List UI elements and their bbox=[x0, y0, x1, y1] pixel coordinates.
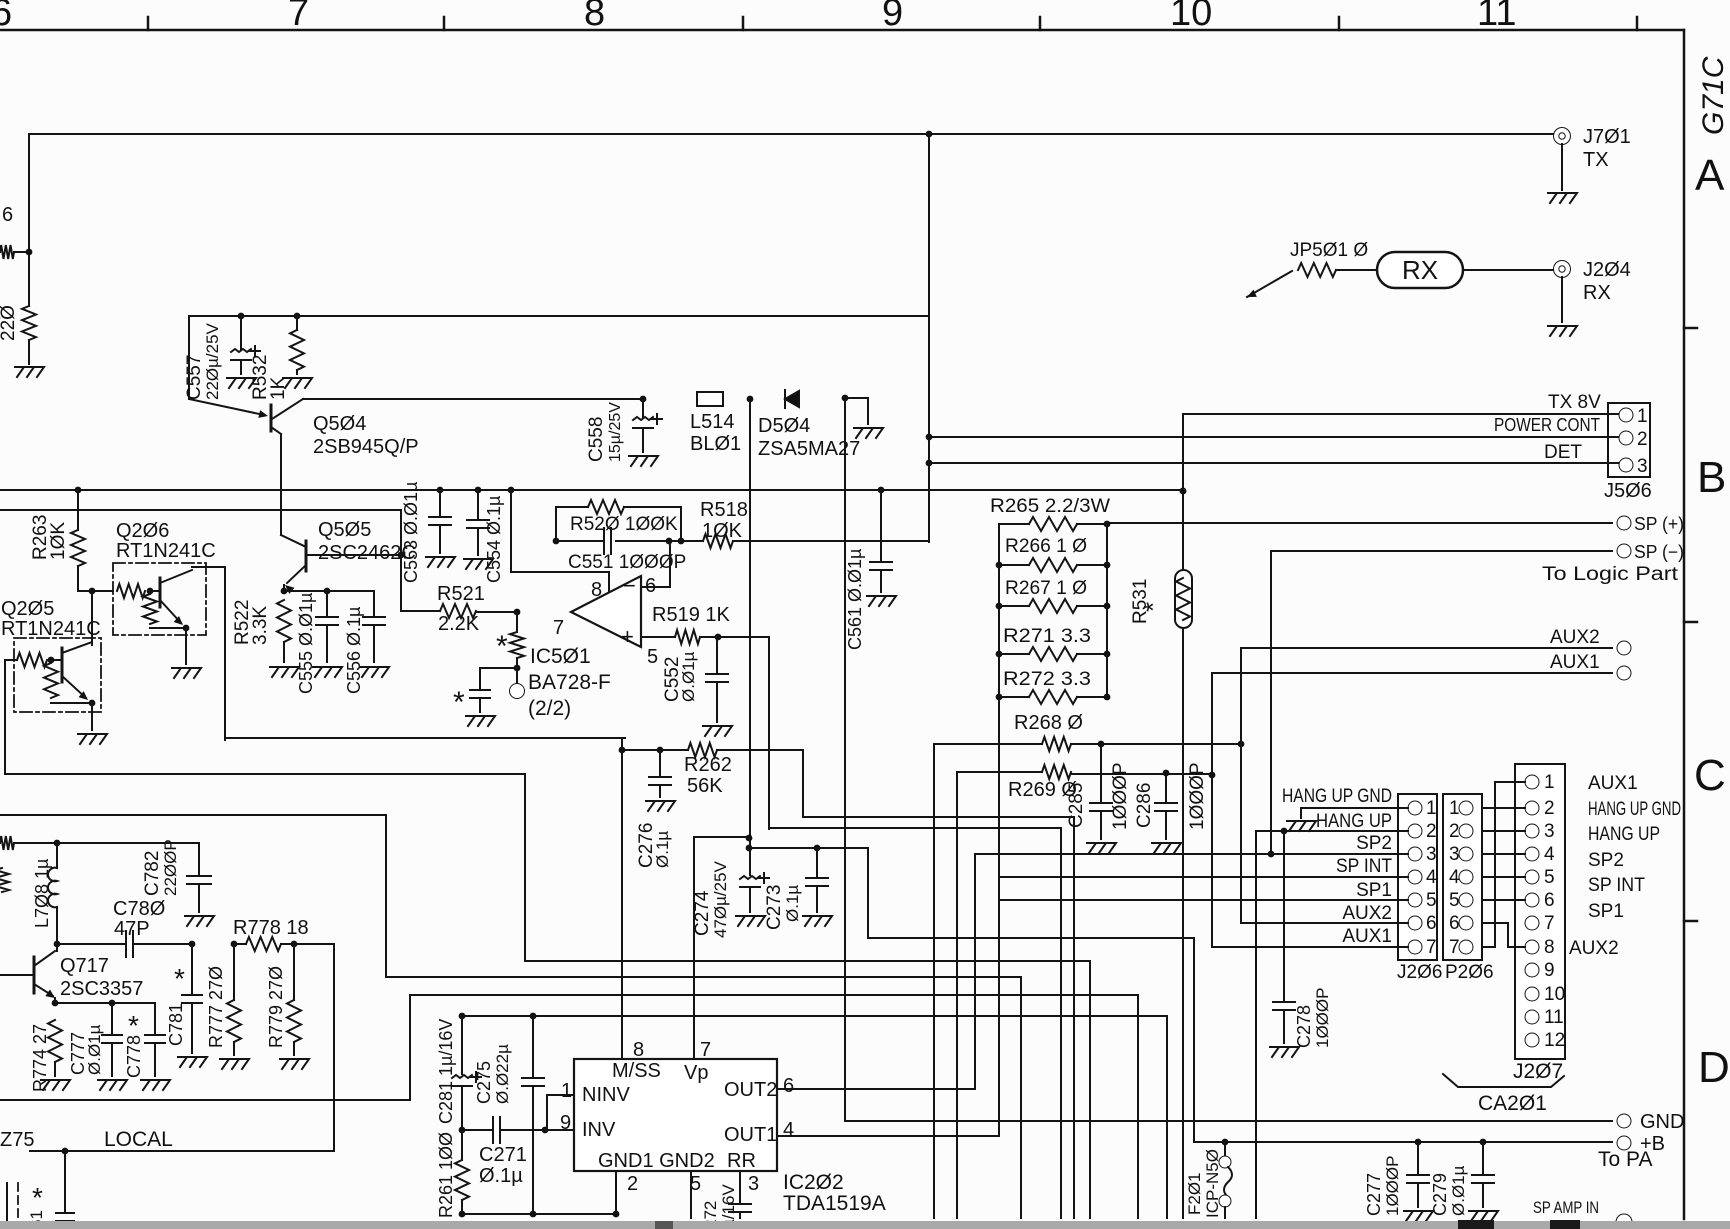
svg-text:R271 3.3: R271 3.3 bbox=[1003, 626, 1091, 647]
svg-text:*: * bbox=[453, 686, 465, 719]
svg-text:3: 3 bbox=[1449, 844, 1460, 865]
svg-text:AUX2: AUX2 bbox=[1569, 938, 1619, 959]
svg-text:1ØK: 1ØK bbox=[702, 520, 743, 542]
svg-text:C271: C271 bbox=[479, 1144, 527, 1166]
svg-text:11: 11 bbox=[1544, 1007, 1564, 1028]
svg-text:15µ/25V: 15µ/25V bbox=[607, 402, 624, 462]
svg-text:56K: 56K bbox=[687, 775, 723, 797]
svg-text:Q5Ø5: Q5Ø5 bbox=[318, 519, 371, 541]
svg-text:M/SS: M/SS bbox=[612, 1060, 661, 1082]
svg-text:8: 8 bbox=[584, 0, 605, 34]
svg-text:J2Ø4: J2Ø4 bbox=[1583, 259, 1631, 281]
svg-text:AUX2: AUX2 bbox=[1342, 903, 1392, 924]
svg-text:R778 18: R778 18 bbox=[233, 917, 309, 939]
svg-text:Ø.1µ: Ø.1µ bbox=[479, 1165, 523, 1187]
svg-text:22Øµ/25V: 22Øµ/25V bbox=[203, 322, 222, 400]
svg-text:C555 Ø.Ø1µ: C555 Ø.Ø1µ bbox=[296, 593, 316, 694]
svg-text:C778: C778 bbox=[124, 1035, 144, 1078]
svg-text:5: 5 bbox=[1426, 890, 1437, 911]
svg-text:Vp: Vp bbox=[684, 1062, 708, 1084]
svg-text:RX: RX bbox=[1583, 282, 1611, 304]
svg-text:RT1N241C: RT1N241C bbox=[116, 540, 216, 562]
svg-text:DET: DET bbox=[1544, 442, 1582, 463]
svg-text:TDA1519A: TDA1519A bbox=[783, 1192, 886, 1215]
svg-text:C277: C277 bbox=[1364, 1173, 1384, 1216]
svg-text:R518: R518 bbox=[700, 499, 748, 521]
svg-text:C279: C279 bbox=[1430, 1173, 1450, 1216]
svg-text:7: 7 bbox=[700, 1039, 711, 1061]
svg-text:AUX2: AUX2 bbox=[1550, 627, 1600, 648]
svg-text:C274: C274 bbox=[692, 890, 713, 936]
svg-text:C782: C782 bbox=[142, 851, 163, 896]
svg-text:C553 Ø.Ø1µ: C553 Ø.Ø1µ bbox=[401, 482, 421, 583]
svg-text:9: 9 bbox=[1544, 960, 1555, 981]
svg-text:SP (−): SP (−) bbox=[1634, 542, 1684, 562]
svg-text:10: 10 bbox=[1170, 0, 1212, 34]
svg-text:Q2Ø6: Q2Ø6 bbox=[116, 520, 169, 542]
svg-text:3: 3 bbox=[1544, 821, 1555, 842]
svg-text:C558: C558 bbox=[586, 417, 607, 462]
svg-text:8: 8 bbox=[591, 579, 602, 601]
svg-text:C281 1µ/16V: C281 1µ/16V bbox=[436, 1019, 456, 1124]
svg-text:RR: RR bbox=[727, 1150, 756, 1172]
svg-text:4: 4 bbox=[1544, 844, 1555, 865]
svg-text:7: 7 bbox=[288, 0, 309, 34]
svg-text:2SC3357: 2SC3357 bbox=[60, 978, 143, 1000]
svg-text:4: 4 bbox=[783, 1119, 794, 1141]
svg-text:9: 9 bbox=[882, 0, 903, 34]
svg-text:1ØK: 1ØK bbox=[48, 522, 69, 560]
svg-text:C554 Ø.1µ: C554 Ø.1µ bbox=[484, 496, 504, 583]
svg-text:*: * bbox=[32, 1182, 43, 1213]
svg-text:7: 7 bbox=[1544, 913, 1555, 934]
svg-text:1: 1 bbox=[1544, 772, 1555, 793]
svg-text:1: 1 bbox=[1637, 406, 1648, 427]
svg-text:GND1 GND2: GND1 GND2 bbox=[598, 1150, 715, 1172]
svg-text:3: 3 bbox=[1426, 844, 1437, 865]
svg-text:R779 27Ø: R779 27Ø bbox=[266, 966, 286, 1048]
svg-text:SP2: SP2 bbox=[1356, 833, 1392, 854]
svg-text:A: A bbox=[1695, 151, 1725, 200]
svg-text:R777 27Ø: R777 27Ø bbox=[206, 966, 226, 1048]
svg-text:2: 2 bbox=[1544, 798, 1555, 819]
svg-text:2SB945Q/P: 2SB945Q/P bbox=[313, 436, 419, 458]
svg-text:+: + bbox=[621, 624, 634, 649]
svg-text:POWER CONT: POWER CONT bbox=[1494, 415, 1600, 435]
svg-text:F2Ø1: F2Ø1 bbox=[1185, 1172, 1204, 1215]
svg-text:J2Ø6: J2Ø6 bbox=[1397, 962, 1442, 983]
svg-text:G71C: G71C bbox=[1697, 56, 1730, 135]
svg-text:SP1: SP1 bbox=[1588, 901, 1624, 922]
svg-text:Ø.Ø22µ: Ø.Ø22µ bbox=[493, 1044, 512, 1104]
svg-text:Q2Ø5: Q2Ø5 bbox=[1, 598, 54, 620]
svg-text:1ØØØP: 1ØØØP bbox=[1313, 988, 1332, 1048]
svg-text:C561 Ø.Ø1µ: C561 Ø.Ø1µ bbox=[845, 549, 865, 650]
svg-text:TX 8V: TX 8V bbox=[1548, 392, 1601, 413]
svg-text:2: 2 bbox=[1449, 821, 1460, 842]
svg-text:NINV: NINV bbox=[582, 1084, 630, 1106]
svg-text:D5Ø4: D5Ø4 bbox=[758, 415, 810, 437]
svg-text:RX: RX bbox=[1402, 255, 1438, 285]
svg-text:HANG UP GND: HANG UP GND bbox=[1588, 799, 1681, 820]
svg-text:47P: 47P bbox=[114, 918, 150, 940]
svg-text:J7Ø1: J7Ø1 bbox=[1583, 126, 1631, 148]
svg-text:3: 3 bbox=[748, 1173, 759, 1195]
svg-text:L514: L514 bbox=[690, 411, 735, 433]
svg-text:*: * bbox=[174, 963, 185, 994]
svg-text:6: 6 bbox=[0, 0, 12, 34]
svg-text:P2Ø6: P2Ø6 bbox=[1445, 962, 1494, 983]
svg-text:SP INT: SP INT bbox=[1588, 875, 1645, 896]
svg-text:Ø.1µ: Ø.1µ bbox=[653, 831, 672, 868]
svg-text:R265 2.2/3W: R265 2.2/3W bbox=[990, 496, 1110, 517]
svg-text:5: 5 bbox=[647, 646, 658, 668]
svg-text:AUX1: AUX1 bbox=[1550, 652, 1600, 673]
svg-text:1: 1 bbox=[561, 1080, 572, 1102]
svg-text:8: 8 bbox=[1544, 937, 1555, 958]
svg-text:1K: 1K bbox=[268, 376, 289, 400]
svg-text:C78Ø: C78Ø bbox=[113, 898, 165, 920]
svg-text:7: 7 bbox=[1449, 937, 1460, 958]
svg-text:3: 3 bbox=[1637, 456, 1648, 477]
svg-text:ICP-N5Ø: ICP-N5Ø bbox=[1203, 1149, 1222, 1218]
svg-text:OUT2: OUT2 bbox=[724, 1079, 777, 1101]
svg-text:BLØ1: BLØ1 bbox=[690, 433, 741, 455]
svg-text:Ø.1µ: Ø.1µ bbox=[783, 885, 802, 922]
svg-text:AUX1: AUX1 bbox=[1342, 926, 1392, 947]
svg-text:*: * bbox=[496, 630, 508, 663]
svg-text:4: 4 bbox=[1426, 867, 1437, 888]
svg-text:D: D bbox=[1698, 1043, 1730, 1092]
svg-text:RT1N241C: RT1N241C bbox=[1, 618, 101, 640]
svg-text:5: 5 bbox=[1449, 890, 1460, 911]
svg-text:C273: C273 bbox=[764, 885, 785, 930]
svg-text:11: 11 bbox=[1477, 0, 1516, 34]
svg-text:4: 4 bbox=[1449, 867, 1460, 888]
svg-text:Q5Ø4: Q5Ø4 bbox=[313, 413, 366, 435]
svg-text:47Øµ/25V: 47Øµ/25V bbox=[711, 860, 730, 938]
svg-text:7: 7 bbox=[553, 617, 564, 639]
svg-text:Ø.Ø1µ: Ø.Ø1µ bbox=[85, 1024, 104, 1075]
svg-text:C781: C781 bbox=[166, 1003, 186, 1046]
svg-text:SP INT: SP INT bbox=[1336, 856, 1392, 877]
svg-text:R7Ø7: R7Ø7 bbox=[0, 294, 5, 344]
svg-text:IC5Ø1: IC5Ø1 bbox=[530, 645, 591, 668]
svg-text:2: 2 bbox=[1426, 821, 1437, 842]
svg-text:−: − bbox=[623, 573, 636, 598]
svg-text:1: 1 bbox=[1426, 798, 1437, 819]
svg-text:GND: GND bbox=[1640, 1111, 1684, 1133]
svg-text:TX: TX bbox=[1583, 149, 1609, 171]
svg-text:10: 10 bbox=[1544, 984, 1565, 1005]
svg-text:B: B bbox=[1697, 453, 1726, 502]
svg-text:*: * bbox=[1138, 602, 1168, 612]
svg-text:2.2K: 2.2K bbox=[438, 613, 480, 635]
svg-text:R262: R262 bbox=[684, 754, 732, 776]
svg-text:IC2Ø2: IC2Ø2 bbox=[783, 1171, 844, 1194]
svg-text:C285: C285 bbox=[1066, 783, 1087, 828]
svg-text:12: 12 bbox=[1544, 1030, 1565, 1051]
svg-text:SP (+): SP (+) bbox=[1634, 514, 1684, 534]
svg-text:OUT1: OUT1 bbox=[724, 1124, 777, 1146]
svg-text:6: 6 bbox=[1544, 890, 1555, 911]
svg-text:R266 1 Ø: R266 1 Ø bbox=[1005, 536, 1087, 557]
svg-text:R774 27: R774 27 bbox=[30, 1024, 50, 1092]
svg-text:To Logic Part: To Logic Part bbox=[1542, 564, 1679, 585]
svg-text:JP5Ø1 Ø: JP5Ø1 Ø bbox=[1290, 240, 1368, 261]
svg-text:INV: INV bbox=[582, 1119, 616, 1141]
svg-text:1ØØØP: 1ØØØP bbox=[1187, 762, 1208, 830]
svg-text:R519 1K: R519 1K bbox=[652, 604, 730, 626]
svg-text:6: 6 bbox=[783, 1075, 794, 1097]
svg-text:6: 6 bbox=[2, 204, 13, 226]
svg-text:7: 7 bbox=[1426, 937, 1437, 958]
svg-text:HANG UP GND: HANG UP GND bbox=[1282, 786, 1392, 807]
svg-text:2: 2 bbox=[1637, 429, 1648, 450]
svg-text:(2/2): (2/2) bbox=[528, 697, 571, 720]
svg-text:8: 8 bbox=[633, 1039, 644, 1061]
svg-text:1: 1 bbox=[1449, 798, 1460, 819]
svg-text:Q717: Q717 bbox=[60, 955, 109, 977]
svg-text:Z75: Z75 bbox=[0, 1129, 34, 1151]
svg-text:SP1: SP1 bbox=[1356, 880, 1392, 901]
svg-text:Ø.Ø1µ: Ø.Ø1µ bbox=[1449, 1165, 1468, 1216]
svg-text:Ø.Ø1µ: Ø.Ø1µ bbox=[679, 651, 698, 702]
svg-text:C557: C557 bbox=[184, 355, 205, 400]
svg-text:R521: R521 bbox=[437, 583, 485, 605]
svg-text:HANG UP: HANG UP bbox=[1316, 811, 1392, 832]
svg-text:R267 1 Ø: R267 1 Ø bbox=[1005, 578, 1087, 599]
svg-text:R531: R531 bbox=[1130, 579, 1151, 624]
svg-text:5: 5 bbox=[1544, 867, 1555, 888]
svg-text:SP AMP IN: SP AMP IN bbox=[1533, 1198, 1599, 1217]
svg-text:R272 3.3: R272 3.3 bbox=[1003, 669, 1091, 690]
svg-text:AUX1: AUX1 bbox=[1588, 773, 1638, 794]
svg-text:C278: C278 bbox=[1294, 1005, 1314, 1048]
svg-text:R261 1ØØ: R261 1ØØ bbox=[436, 1132, 456, 1218]
svg-text:22ØØP: 22ØØP bbox=[161, 839, 180, 896]
svg-text:L7Ø8 1µ: L7Ø8 1µ bbox=[32, 859, 52, 928]
svg-text:To PA: To PA bbox=[1598, 1148, 1652, 1171]
svg-text:6: 6 bbox=[1426, 913, 1437, 934]
svg-text:SP2: SP2 bbox=[1588, 850, 1624, 871]
svg-text:HANG UP: HANG UP bbox=[1588, 824, 1660, 845]
svg-text:C556 Ø.1µ: C556 Ø.1µ bbox=[344, 607, 364, 694]
svg-text:C551 1ØØØP: C551 1ØØØP bbox=[568, 552, 686, 573]
svg-text:C275: C275 bbox=[474, 1061, 494, 1104]
svg-text:R52Ø 1ØØK: R52Ø 1ØØK bbox=[570, 514, 678, 535]
svg-text:C286: C286 bbox=[1134, 783, 1155, 828]
svg-text:R268 Ø: R268 Ø bbox=[1014, 712, 1083, 734]
svg-text:J5Ø6: J5Ø6 bbox=[1604, 480, 1652, 502]
svg-text:LOCAL: LOCAL bbox=[104, 1128, 173, 1151]
svg-text:9: 9 bbox=[560, 1112, 571, 1134]
svg-text:2: 2 bbox=[627, 1173, 638, 1195]
svg-text:CA2Ø1: CA2Ø1 bbox=[1478, 1092, 1547, 1115]
svg-text:J2Ø7: J2Ø7 bbox=[1513, 1060, 1563, 1083]
svg-text:1ØØØP: 1ØØØP bbox=[1110, 762, 1131, 830]
svg-text:6: 6 bbox=[1449, 913, 1460, 934]
svg-text:BA728-F: BA728-F bbox=[528, 671, 611, 694]
svg-text:3.3K: 3.3K bbox=[250, 606, 271, 645]
svg-text:C: C bbox=[1694, 751, 1726, 800]
svg-text:1ØØØP: 1ØØØP bbox=[1383, 1156, 1402, 1216]
